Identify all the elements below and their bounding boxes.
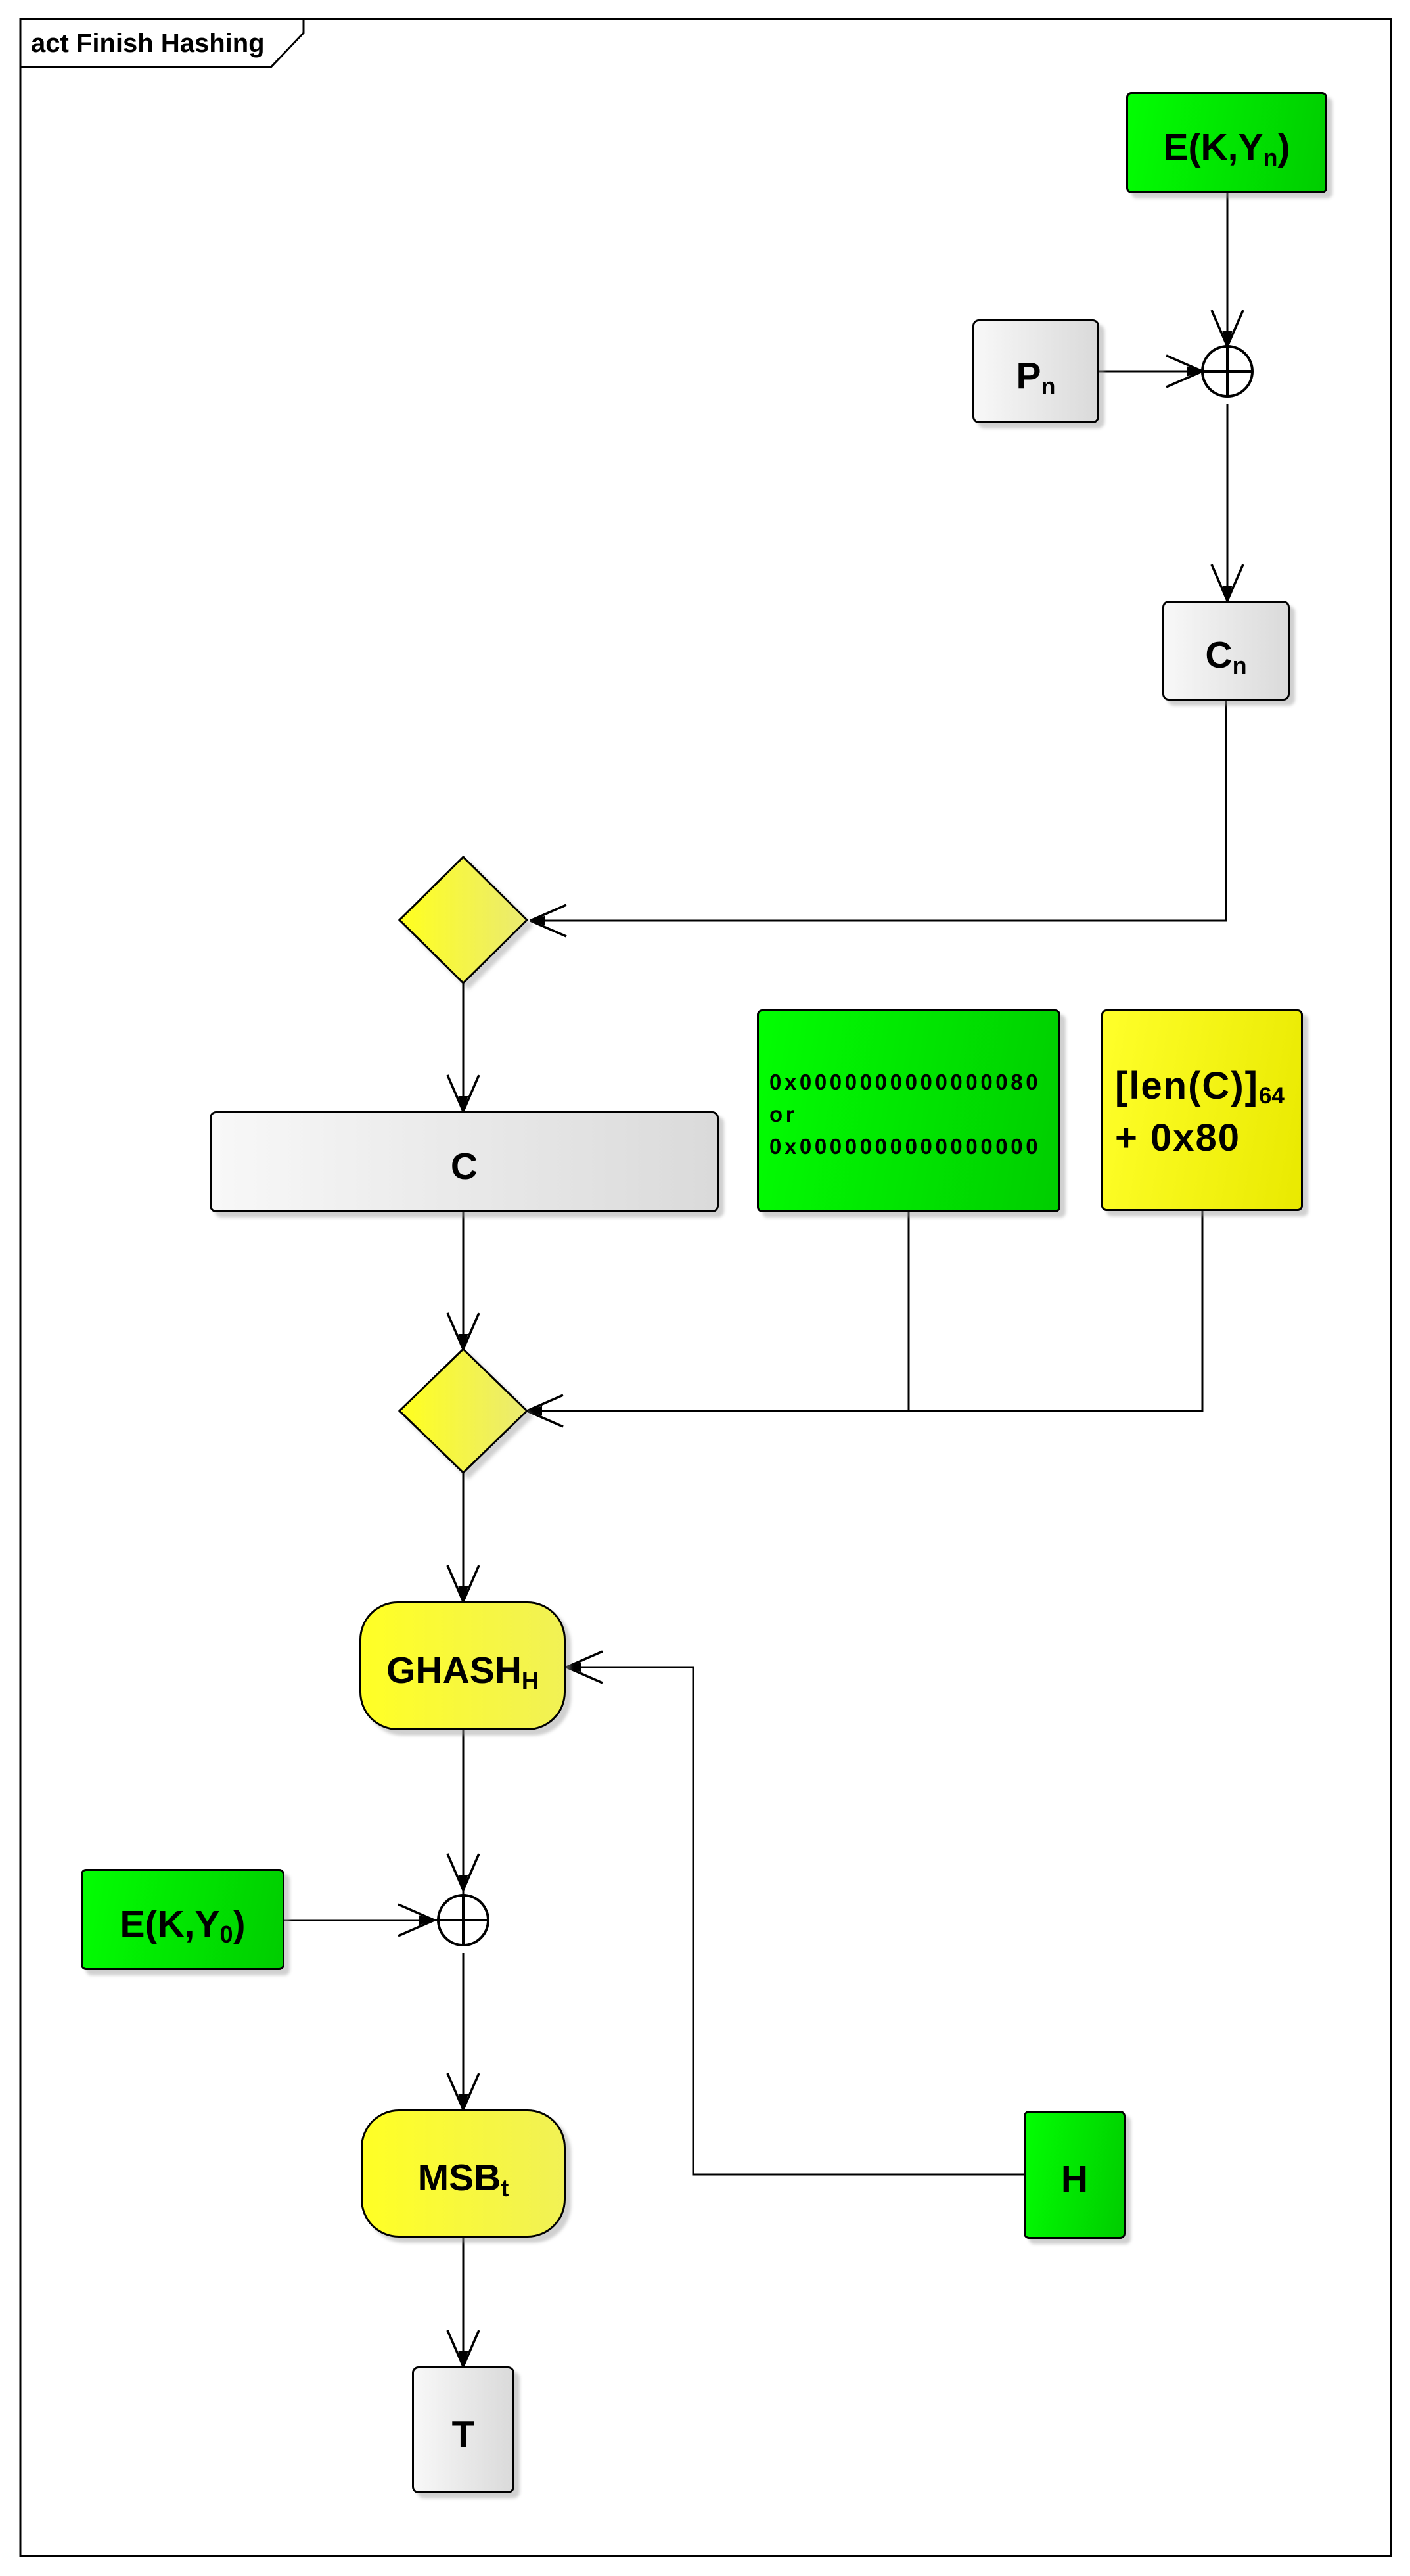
wire diamond 2 to GHASH [463,1473,465,1601]
node len(C)+0x80 [1101,1009,1303,1211]
arrowhead into diamond 2 top [447,1313,479,1349]
XOR circle 2 [434,1895,488,1945]
wire MSBt to T [463,2238,465,2366]
arrowhead into XOR1 top [1212,310,1243,346]
wire hex-constant box down [908,1212,910,1411]
arrowhead into T top [447,2330,479,2366]
node T [412,2366,514,2493]
node GHASH [359,1601,566,1730]
XOR circle 1 [1202,346,1252,396]
arrowhead into diamond 1 right vertex [530,905,566,936]
wire GHASH to XOR2 [463,1730,465,1895]
node C [210,1111,719,1212]
frame tab [20,19,304,68]
wire diamond 1 to C [463,983,465,1111]
arrowhead into GHASH top [447,1565,479,1601]
arrowhead into Cn top [1212,564,1243,601]
wire E(K,Yn) to XOR1 [1227,193,1229,346]
frame tab label [31,29,265,58]
wire Cn to merge diamond 1 [530,701,1226,921]
wire H to GHASH [566,1667,1024,2174]
wire XOR2 to MSBt [463,1953,465,2109]
node hex constant [757,1009,1060,1212]
node MSBt [361,2109,566,2238]
arrowhead into XOR2 top [447,1854,479,1890]
node E(K,Y0) [81,1869,284,1970]
wire C to merge diamond 2 [463,1212,465,1349]
arrowhead into diamond 2 right vertex [527,1395,563,1427]
wire E(K,Y0) to XOR2 [284,1920,434,1921]
wire len(C) box down and left to diamond 2 [527,1211,1202,1411]
wire XOR1 to Cn [1227,404,1229,601]
arrowhead into XOR1 left [1166,356,1202,387]
arrowhead into XOR2 left [398,1904,434,1936]
node Pn [972,319,1099,423]
merge diamond 1 [399,857,527,983]
wire Pn to XOR1 [1099,371,1202,373]
arrowhead into GHASH right [566,1651,603,1683]
node Cn [1162,601,1290,701]
node H [1024,2111,1126,2239]
merge diamond 2 [399,1349,527,1473]
node E(K,Yn) [1126,92,1327,193]
arrowhead into MSBt top [447,2073,479,2109]
arrowhead into C top [447,1075,479,1111]
